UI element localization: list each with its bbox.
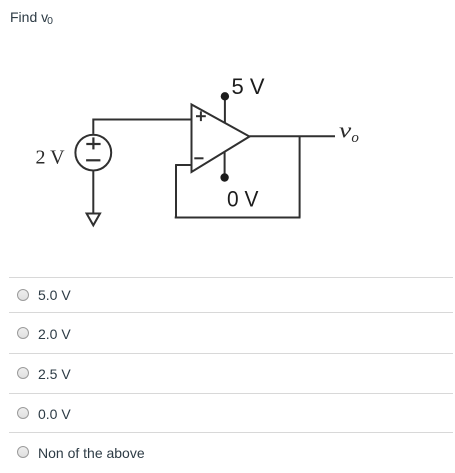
svg-text:0 V: 0 V bbox=[227, 186, 258, 211]
node 0 V bbox=[220, 173, 228, 181]
wire bbox=[224, 152, 226, 178]
wire bbox=[224, 96, 226, 123]
svg-text:v: v bbox=[339, 118, 351, 143]
node 5 V bbox=[221, 92, 229, 100]
svg-text:2 V: 2 V bbox=[36, 147, 66, 169]
wire bbox=[250, 135, 336, 137]
wire bbox=[299, 136, 301, 217]
ground bbox=[87, 214, 100, 226]
voltage source V1 bbox=[75, 135, 111, 171]
wire bbox=[175, 217, 301, 219]
wire bbox=[93, 120, 191, 134]
wire bbox=[175, 165, 177, 218]
wire bbox=[92, 171, 94, 213]
svg-text:o: o bbox=[351, 130, 359, 146]
wire bbox=[175, 164, 191, 166]
op-amp U1 bbox=[192, 105, 250, 173]
svg-text:5 V: 5 V bbox=[232, 74, 265, 99]
label vo bbox=[339, 118, 359, 146]
